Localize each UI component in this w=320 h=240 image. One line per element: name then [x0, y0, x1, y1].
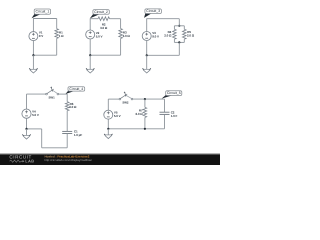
wire C1 right upper	[56, 19, 58, 29]
wire C2 right lower	[120, 39, 122, 56]
switch SW2	[119, 91, 133, 104]
wire C5 C2 top stub	[164, 99, 166, 112]
wire C5 left upper	[107, 99, 109, 110]
wire C4 top left	[27, 93, 46, 95]
junction C3 top	[178, 25, 180, 27]
voltage source V4	[22, 109, 31, 119]
wire C2 ground stub	[89, 55, 91, 69]
voltage source V3	[142, 31, 151, 40]
wire C5 C2 bottom stub	[164, 114, 166, 128]
wire C3 left lower	[146, 41, 148, 56]
wire C4 riser	[41, 129, 43, 148]
svg-text:Circuit_5: Circuit_5	[167, 91, 181, 95]
wire C3 ground stub	[146, 55, 148, 69]
wire C1 bottom	[33, 54, 56, 56]
svg-text:6.0 Ω: 6.0 Ω	[135, 112, 143, 116]
wire C3 R5 bottom stub	[183, 39, 185, 42]
wire C4 top right	[59, 93, 67, 95]
wire C1 left lower	[32, 41, 34, 56]
capacitor C1	[62, 131, 72, 133]
wire C3 R5 top stub	[183, 26, 185, 30]
svg-text:Circuit_4: Circuit_4	[69, 87, 83, 91]
svg-text:2.0 Ω: 2.0 Ω	[187, 33, 195, 37]
wire C5 bottom	[108, 128, 164, 130]
label Circuit_5	[162, 91, 182, 99]
svg-text:3.0 Ω: 3.0 Ω	[100, 26, 108, 30]
wire C4 bottom	[42, 147, 67, 149]
wire C5 top left	[108, 98, 119, 100]
wire C1 right lower	[56, 38, 58, 55]
svg-text:1 Ω: 1 Ω	[59, 34, 64, 38]
svg-text:2.0 Ω: 2.0 Ω	[164, 33, 172, 37]
resistor R4	[173, 29, 177, 39]
ground C2	[86, 68, 94, 73]
voltage source V1	[29, 31, 38, 40]
junction C5 top	[144, 98, 146, 100]
wire C4 right lower	[66, 134, 68, 148]
svg-text:6.0 Ω: 6.0 Ω	[69, 105, 77, 109]
ground C1	[29, 68, 37, 73]
wire C3 top	[147, 18, 180, 20]
wire C2 left lower	[89, 39, 91, 55]
label Circuit_4	[66, 87, 85, 94]
resistor R6	[65, 102, 69, 111]
wire C3 left upper	[146, 18, 148, 31]
wire C3 R4 top stub	[173, 26, 175, 30]
svg-text:http://circuitlab.com/c/displa: http://circuitlab.com/c/display/ma9b4e/	[45, 158, 93, 162]
wire C3 bottom stub	[178, 42, 180, 55]
junction C5 bottom-mid	[144, 128, 146, 130]
ground C5	[104, 134, 112, 139]
junction C2 bottom-left	[89, 54, 91, 56]
wire C5 ground stub	[107, 129, 109, 135]
voltage source V2	[86, 30, 95, 39]
voltage source V5	[104, 110, 113, 119]
svg-text:Circuit_2: Circuit_2	[94, 10, 108, 14]
svg-text:5.0 V: 5.0 V	[32, 113, 39, 117]
svg-text:1.0 F: 1.0 F	[171, 114, 178, 118]
wire C1 left upper	[32, 18, 34, 32]
svg-text:1.0 µF: 1.0 µF	[74, 133, 82, 137]
wire C1 top	[33, 18, 56, 20]
junction C5 bottom-left	[107, 128, 109, 130]
wire C2 top right	[110, 18, 121, 20]
resistor R2	[98, 17, 109, 21]
ground C4	[22, 134, 30, 139]
svg-text:9.0 V: 9.0 V	[152, 34, 159, 38]
wire C2 left upper	[89, 18, 91, 30]
junction C1 bottom-left	[32, 54, 34, 56]
svg-text:5.0 V: 5.0 V	[96, 34, 103, 38]
label Circuit_2	[90, 10, 109, 19]
wire C5 R7 bottom stub	[144, 117, 146, 128]
junction C3 bottom bar	[178, 41, 180, 43]
wire C2 top left	[90, 18, 98, 20]
svg-text:Circuit_3: Circuit_3	[146, 9, 160, 13]
wire C3 par top bar	[174, 25, 184, 27]
wire C5 R7 top stub	[144, 99, 146, 107]
junction C4	[25, 128, 27, 130]
wire C3 par bottom bar	[174, 41, 184, 43]
resistor R5	[183, 29, 187, 39]
wire C5 left lower	[107, 119, 109, 129]
wire C2 bottom	[90, 54, 120, 56]
wire C2 right upper	[120, 19, 122, 29]
wire C4 right upper	[66, 94, 68, 102]
wire C4 left upper	[26, 94, 28, 109]
wire C3 R4 bottom stub	[173, 39, 175, 42]
label Circuit_1	[32, 9, 51, 18]
svg-text:SW2: SW2	[122, 101, 129, 105]
wire C4 left lower	[26, 118, 28, 129]
svg-text:LAB: LAB	[25, 159, 34, 164]
wire C4 bottom left	[27, 128, 42, 130]
switch SW1	[46, 86, 59, 99]
resistor R3	[119, 29, 123, 39]
svg-text:SW1: SW1	[49, 96, 56, 100]
label Circuit_3	[144, 9, 161, 18]
svg-text:Circuit_1: Circuit_1	[35, 10, 49, 14]
ground C3	[143, 68, 151, 73]
svg-text:5.0 V: 5.0 V	[114, 114, 121, 118]
CircuitLab logo	[9, 155, 34, 164]
resistor R7	[143, 107, 147, 117]
footer hosted text	[45, 154, 93, 162]
svg-text:3.0 Ω: 3.0 Ω	[123, 34, 131, 38]
resistor R1	[55, 29, 59, 39]
capacitor C2	[160, 112, 170, 114]
svg-text:9 V: 9 V	[39, 34, 43, 38]
wire C5 top right	[133, 98, 165, 100]
wire C4 ground stub	[26, 129, 28, 136]
wire C1 ground stub	[32, 55, 34, 69]
wire C3 top stub	[178, 19, 180, 26]
footer bar	[0, 153, 220, 165]
wire C4 mid right	[66, 111, 68, 132]
junction C3 bottom-left	[146, 54, 148, 56]
wire C3 bottom	[147, 54, 180, 56]
